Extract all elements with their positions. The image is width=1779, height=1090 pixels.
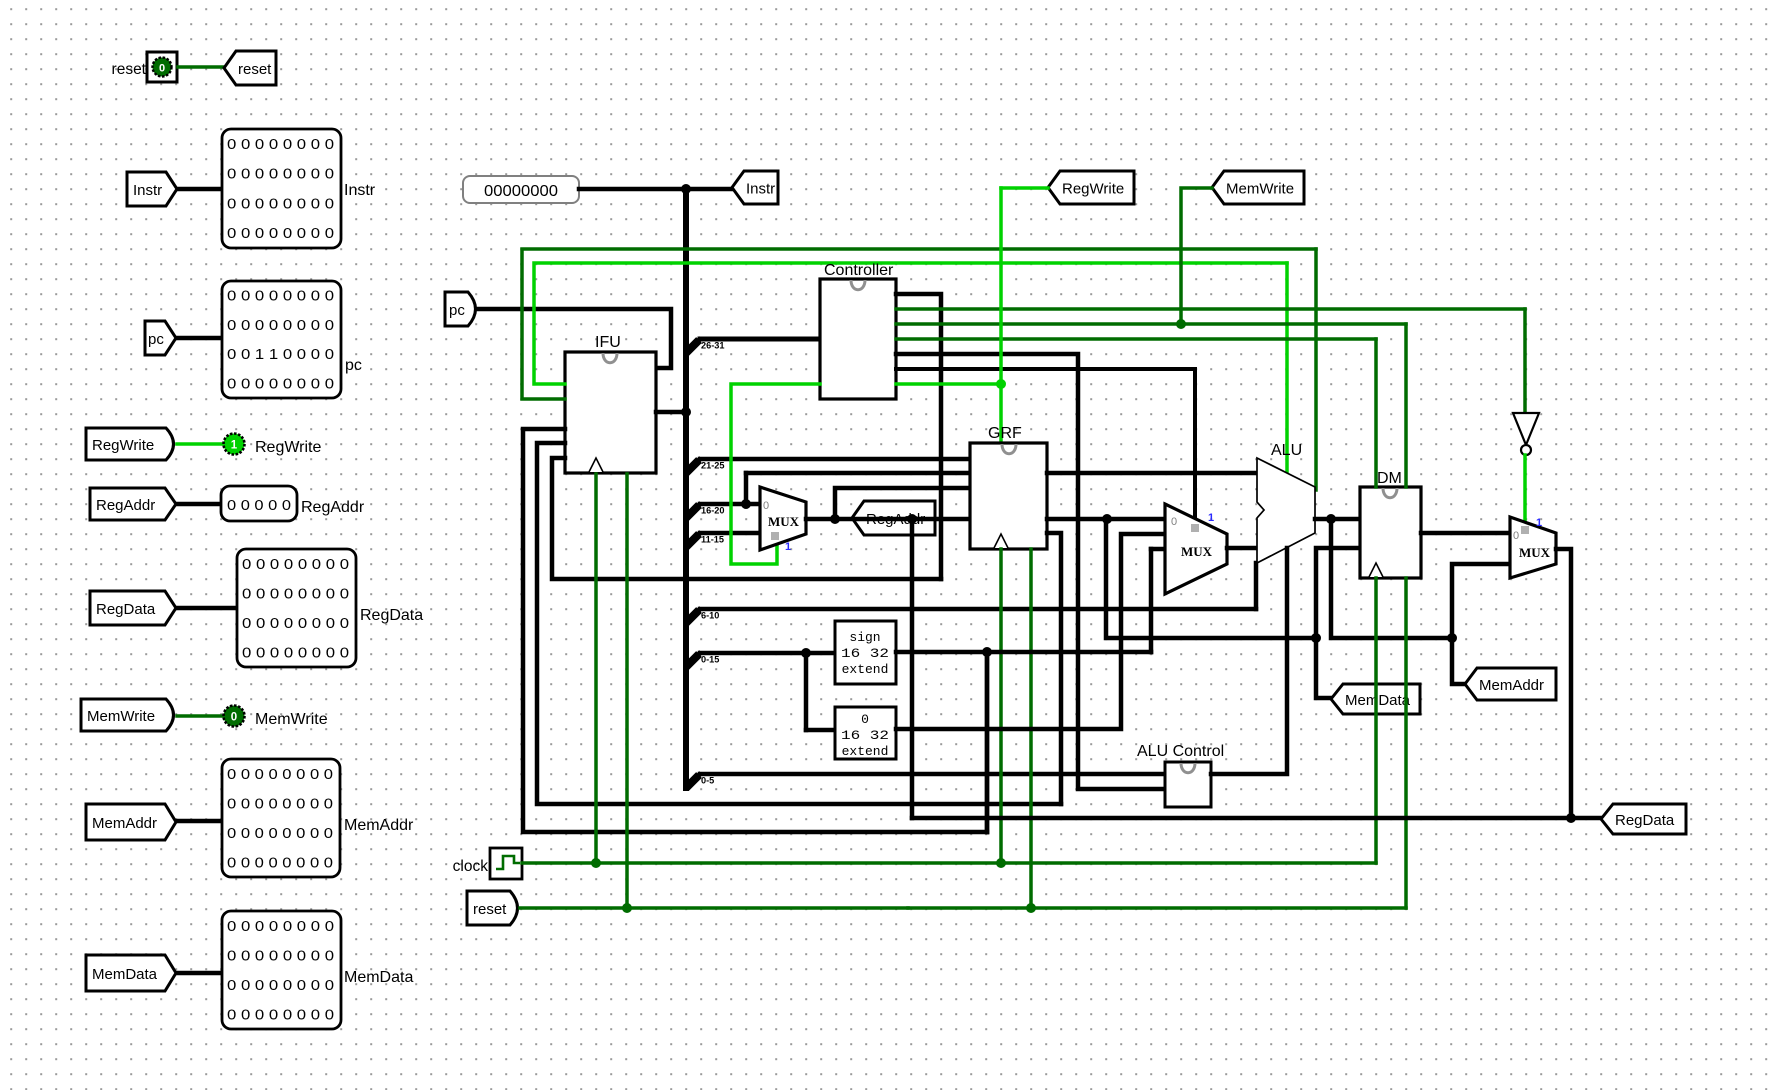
svg-text:Instr: Instr bbox=[133, 182, 162, 199]
node clk-GRF bbox=[996, 858, 1006, 868]
svg-text:0 0 0 0 0 0 0 0: 0 0 0 0 0 0 0 0 bbox=[227, 196, 334, 212]
input pin MemAddr bbox=[86, 804, 176, 840]
wire bbox=[177, 971, 222, 976]
wire bbox=[177, 819, 222, 824]
svg-text:MemData: MemData bbox=[1345, 692, 1411, 709]
svg-text:DM: DM bbox=[1377, 470, 1402, 487]
svg-text:MUX: MUX bbox=[1181, 544, 1213, 559]
svg-text:0 0 0 0 0 0 0 0: 0 0 0 0 0 0 0 0 bbox=[227, 376, 334, 392]
wire bbox=[478, 309, 671, 368]
input pin pc bbox=[145, 321, 176, 355]
wire GRF clock bbox=[999, 549, 1003, 863]
wire bbox=[1374, 339, 1378, 487]
svg-text:0: 0 bbox=[159, 63, 165, 75]
svg-text:21-25: 21-25 bbox=[701, 461, 725, 471]
wire bbox=[686, 187, 732, 192]
svg-text:Instr: Instr bbox=[344, 182, 376, 199]
svg-text:GRF: GRF bbox=[988, 425, 1022, 442]
svg-text:0 0 0 0 0 0 0 0: 0 0 0 0 0 0 0 0 bbox=[227, 919, 334, 935]
node ALU-result bbox=[1326, 514, 1336, 524]
wire bbox=[835, 488, 970, 519]
wire bbox=[896, 354, 1165, 789]
svg-text:1: 1 bbox=[231, 440, 238, 452]
svg-text:0 0 0 0 0 0 0 0: 0 0 0 0 0 0 0 0 bbox=[227, 1007, 334, 1023]
wire bbox=[806, 517, 970, 522]
wire funct bbox=[700, 772, 1165, 777]
node 0-15 bbox=[801, 648, 811, 658]
zero extender bbox=[835, 707, 896, 759]
wire bbox=[999, 188, 1003, 443]
svg-text:0 0 0 0 0 0 0 0: 0 0 0 0 0 0 0 0 bbox=[227, 855, 333, 871]
svg-text:0 0 0 0 0 0 0 0: 0 0 0 0 0 0 0 0 bbox=[227, 137, 334, 153]
node DM-WD bbox=[1311, 633, 1321, 643]
svg-text:1: 1 bbox=[785, 541, 791, 553]
sign extender bbox=[835, 621, 896, 684]
svg-text:11-15: 11-15 bbox=[701, 535, 724, 545]
wire ALUctl-out bbox=[1211, 548, 1287, 774]
svg-text:RegWrite: RegWrite bbox=[1062, 181, 1124, 198]
wire bbox=[1331, 519, 1452, 638]
wire RegData bus bbox=[912, 816, 1571, 821]
output pin MemWrite (top) bbox=[1212, 171, 1304, 204]
wire DM clock bbox=[1374, 578, 1378, 863]
probe pc (32-bit) bbox=[222, 281, 341, 398]
svg-text:RegData: RegData bbox=[1615, 812, 1675, 829]
node MemAddr-net bbox=[1447, 633, 1457, 643]
probe Instr (32-bit) bbox=[222, 129, 341, 248]
svg-text:clock: clock bbox=[453, 858, 489, 875]
wire bbox=[1452, 564, 1510, 638]
wire bbox=[804, 653, 809, 730]
svg-text:RegWrite: RegWrite bbox=[92, 437, 154, 454]
wire bbox=[552, 458, 941, 579]
splitter branch 6-10 bbox=[686, 610, 699, 623]
svg-text:0 0 0 0 0 0 0 0: 0 0 0 0 0 0 0 0 bbox=[227, 767, 333, 783]
svg-text:pc: pc bbox=[449, 302, 465, 319]
svg-text:0 0 0 0 0 0 0 0: 0 0 0 0 0 0 0 0 bbox=[227, 167, 334, 183]
svg-text:sign: sign bbox=[849, 630, 880, 645]
output pin pc (main) bbox=[445, 292, 476, 326]
node RegAddr-net bbox=[830, 514, 840, 524]
svg-text:0: 0 bbox=[1171, 516, 1177, 528]
svg-text:extend: extend bbox=[842, 662, 889, 677]
subcircuit IFU bbox=[565, 352, 656, 473]
node bbox=[907, 514, 917, 524]
svg-text:0: 0 bbox=[1513, 530, 1519, 542]
probe MemAddr (32-bit) bbox=[222, 759, 340, 877]
clock pin bbox=[490, 848, 522, 879]
wire bbox=[1181, 188, 1212, 324]
wire bbox=[177, 606, 237, 611]
svg-text:MemAddr: MemAddr bbox=[1479, 677, 1544, 694]
output pin RegAddr (main) bbox=[852, 501, 935, 535]
wire bbox=[896, 337, 1376, 341]
svg-text:RegAddr: RegAddr bbox=[301, 499, 365, 516]
node RD2 bbox=[1102, 514, 1112, 524]
svg-text:0 0 0 0 0 0 0 0: 0 0 0 0 0 0 0 0 bbox=[227, 318, 334, 334]
output pin reset (top-left) bbox=[224, 51, 276, 85]
node RegData-net bbox=[1566, 813, 1576, 823]
svg-text:MUX: MUX bbox=[768, 514, 800, 529]
splitter branch 0-5 bbox=[686, 775, 699, 788]
svg-text:pc: pc bbox=[345, 357, 362, 374]
svg-text:0-15: 0-15 bbox=[701, 655, 719, 665]
wire IFU clock bbox=[594, 474, 598, 863]
input pin Instr bbox=[127, 172, 177, 206]
svg-text:0 0 0 0 0 0 0 0: 0 0 0 0 0 0 0 0 bbox=[242, 645, 349, 661]
subcircuit GRF bbox=[970, 443, 1047, 549]
wire bbox=[1227, 546, 1257, 551]
wire bbox=[744, 473, 749, 504]
wire bbox=[177, 714, 223, 718]
svg-text:16-20: 16-20 bbox=[701, 506, 725, 516]
wire bbox=[1106, 519, 1316, 638]
wire bbox=[178, 187, 222, 192]
wire bbox=[896, 294, 941, 579]
output pin MemAddr (main) bbox=[1465, 668, 1556, 700]
svg-text:0 0 0 0 0 0 0 0: 0 0 0 0 0 0 0 0 bbox=[227, 978, 334, 994]
splitter branch 11-15 bbox=[686, 534, 699, 547]
node clk-IFU bbox=[591, 858, 601, 868]
splitter branch 0-15 bbox=[686, 654, 699, 667]
wire sign-out bbox=[896, 650, 1151, 655]
svg-text:0-5: 0-5 bbox=[701, 776, 714, 786]
input pin reset (top-left) bbox=[147, 52, 177, 82]
subcircuit Controller bbox=[820, 279, 896, 399]
wire bbox=[806, 728, 835, 733]
svg-text:Instr: Instr bbox=[746, 181, 775, 198]
svg-text:Controller: Controller bbox=[824, 262, 894, 279]
wire bbox=[656, 410, 686, 415]
wire bbox=[731, 384, 820, 564]
wire DM-out bbox=[1421, 531, 1510, 536]
output pin RegData (main) bbox=[1601, 804, 1686, 834]
wire bbox=[896, 369, 1195, 517]
svg-text:0 0 0 0 0 0 0 0: 0 0 0 0 0 0 0 0 bbox=[227, 826, 333, 842]
hex display 00000000 bbox=[463, 176, 579, 203]
probe RegAddr (5-bit) bbox=[221, 486, 297, 521]
wire bbox=[534, 263, 1287, 384]
subcircuit ALU Control bbox=[1165, 762, 1211, 807]
svg-text:RegData: RegData bbox=[360, 607, 423, 624]
wire bbox=[1571, 816, 1601, 821]
wire bbox=[1316, 638, 1331, 698]
svg-text:MemWrite: MemWrite bbox=[87, 708, 155, 725]
wire bbox=[1254, 563, 1259, 609]
splitter branch 26-31 bbox=[686, 340, 699, 353]
svg-text:0 0 0 0 0 0 0 0: 0 0 0 0 0 0 0 0 bbox=[242, 557, 349, 573]
node 16-20 bbox=[741, 499, 751, 509]
node imm-tap bbox=[982, 647, 992, 657]
wire RD2 bbox=[1047, 517, 1165, 522]
node rst-GRF bbox=[1026, 903, 1036, 913]
wire Instr bus spine bbox=[683, 189, 689, 788]
node MemWrite-net bbox=[1176, 319, 1186, 329]
wire bbox=[523, 429, 987, 832]
mux MUX3 bbox=[1510, 517, 1556, 578]
wire ALU-out bbox=[1315, 517, 1360, 522]
svg-text:MemAddr: MemAddr bbox=[92, 815, 157, 832]
svg-text:0 0 0 0 0 0 0 0: 0 0 0 0 0 0 0 0 bbox=[242, 586, 349, 602]
wire bbox=[896, 322, 1406, 326]
wire 0ext-out bbox=[896, 534, 1165, 729]
svg-text:0 0 0 0 0 0 0 0: 0 0 0 0 0 0 0 0 bbox=[227, 948, 334, 964]
input pin RegWrite bbox=[86, 428, 174, 460]
LED RegWrite bbox=[224, 434, 245, 455]
wire bbox=[896, 307, 1525, 311]
wire bbox=[177, 336, 222, 341]
wire bbox=[579, 187, 686, 192]
svg-text:MemData: MemData bbox=[344, 969, 413, 986]
inverter NOT1 bbox=[1523, 309, 1527, 413]
node instr-out bbox=[681, 407, 691, 417]
wire bbox=[1404, 324, 1408, 487]
wire bbox=[1151, 547, 1165, 552]
alu ALU bbox=[1257, 458, 1315, 563]
mux MUX2 bbox=[1165, 504, 1227, 594]
svg-text:26-31: 26-31 bbox=[701, 341, 725, 351]
svg-text:0 0 0 0 0 0 0 0: 0 0 0 0 0 0 0 0 bbox=[227, 796, 333, 812]
wire bbox=[910, 519, 915, 818]
svg-text:0 0 0 0 0 0 0 0: 0 0 0 0 0 0 0 0 bbox=[242, 616, 349, 632]
input pin RegAddr bbox=[90, 488, 176, 520]
svg-text:RegAddr: RegAddr bbox=[96, 497, 155, 514]
splitter branch 16-20 bbox=[686, 505, 699, 518]
svg-text:0: 0 bbox=[763, 500, 769, 512]
svg-text:0 0 1 1 0 0 0 0: 0 0 1 1 0 0 0 0 bbox=[227, 347, 334, 363]
svg-text:reset: reset bbox=[112, 61, 147, 78]
wire bbox=[1452, 638, 1465, 684]
svg-text:IFU: IFU bbox=[595, 334, 621, 351]
mux MUX1 bbox=[760, 487, 806, 550]
svg-text:00000000: 00000000 bbox=[484, 183, 558, 200]
svg-text:16 32: 16 32 bbox=[841, 728, 889, 743]
wire bbox=[522, 249, 1316, 399]
node rst-IFU bbox=[622, 903, 632, 913]
svg-text:reset: reset bbox=[473, 901, 507, 918]
wire bbox=[537, 443, 1061, 804]
probe MemData (32-bit) bbox=[222, 911, 341, 1029]
LED MemWrite bbox=[224, 706, 245, 727]
svg-text:0: 0 bbox=[861, 712, 869, 727]
splitter branch 21-25 bbox=[686, 460, 699, 473]
svg-text:pc: pc bbox=[148, 331, 164, 348]
svg-text:1: 1 bbox=[1536, 517, 1542, 529]
wire MUX3-out bbox=[1556, 549, 1571, 818]
wire reset2 bbox=[908, 906, 1406, 910]
node Instr-bus-top bbox=[681, 184, 691, 194]
wire bbox=[1149, 549, 1154, 652]
output pin RegWrite (top) bbox=[1048, 171, 1134, 204]
svg-text:0 0 0 0 0 0 0 0: 0 0 0 0 0 0 0 0 bbox=[227, 289, 334, 305]
svg-text:ALU Control: ALU Control bbox=[1137, 743, 1224, 760]
svg-text:0: 0 bbox=[231, 712, 237, 724]
input pin MemData bbox=[86, 955, 176, 991]
svg-text:MemAddr: MemAddr bbox=[344, 817, 414, 834]
svg-text:0 0 0 0 0 0 0 0: 0 0 0 0 0 0 0 0 bbox=[227, 226, 334, 242]
wire IFU reset bbox=[625, 474, 629, 908]
wire DM reset bbox=[1404, 578, 1408, 908]
wire bbox=[178, 65, 224, 69]
wire bbox=[1316, 548, 1360, 638]
node RegWrite-net bbox=[996, 379, 1006, 389]
svg-text:MemWrite: MemWrite bbox=[255, 711, 328, 728]
input pin reset (bottom) bbox=[467, 891, 518, 925]
wire bbox=[1047, 533, 1061, 804]
svg-text:RegWrite: RegWrite bbox=[255, 439, 321, 456]
svg-text:reset: reset bbox=[238, 61, 272, 78]
output pin MemData (main) bbox=[1331, 684, 1420, 714]
input pin RegData bbox=[90, 591, 176, 625]
wire bbox=[177, 442, 223, 446]
wire bbox=[1314, 249, 1318, 490]
svg-text:ALU: ALU bbox=[1271, 442, 1302, 459]
wire reset bbox=[520, 906, 908, 910]
svg-text:MUX: MUX bbox=[1519, 545, 1551, 560]
svg-text:extend: extend bbox=[842, 744, 889, 759]
wire bbox=[1285, 263, 1289, 473]
wire bbox=[746, 471, 970, 476]
input pin MemWrite bbox=[81, 699, 174, 731]
output pin Instr (top) bbox=[732, 171, 778, 204]
wire bbox=[1523, 455, 1527, 520]
wire bbox=[985, 652, 990, 832]
svg-text:6-10: 6-10 bbox=[701, 611, 719, 621]
subcircuit DM bbox=[1360, 487, 1421, 578]
svg-text:RegData: RegData bbox=[96, 601, 156, 618]
svg-text:16 32: 16 32 bbox=[841, 646, 889, 661]
svg-text:MemWrite: MemWrite bbox=[1226, 181, 1294, 198]
probe RegData (32-bit) bbox=[237, 549, 356, 667]
svg-text:0 0 0 0 0: 0 0 0 0 0 bbox=[227, 498, 291, 514]
wire bbox=[985, 652, 990, 832]
svg-text:MemData: MemData bbox=[92, 966, 158, 983]
wire GRF reset bbox=[1029, 549, 1033, 908]
wire bbox=[177, 502, 221, 507]
svg-text:1: 1 bbox=[1208, 512, 1214, 524]
wire bbox=[896, 382, 1001, 386]
wire RD1 bbox=[1047, 471, 1257, 476]
wire bbox=[1001, 186, 1048, 190]
wire clock bbox=[522, 861, 1376, 865]
